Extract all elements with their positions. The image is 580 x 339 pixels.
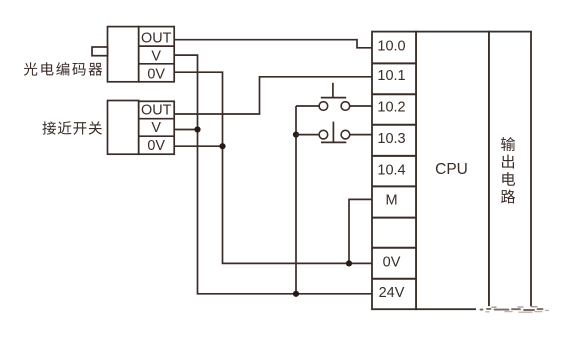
svg-text:M: M: [385, 193, 397, 209]
push button SB2 (NC) wire left: [296, 134, 319, 136]
wire encoder 0V to 0V rail: [174, 72, 372, 263]
wire switch OUT to input 10.1: [174, 77, 372, 114]
switch terminal OUT: [139, 103, 175, 119]
wire SB1 to input 10.2: [350, 105, 372, 107]
output circuit block: [489, 32, 531, 310]
svg-text:10.0: 10.0: [377, 38, 405, 54]
wire M terminal to 0V rail: [349, 199, 372, 263]
svg-text:0V: 0V: [147, 138, 165, 154]
CPU input terminal column: [372, 32, 416, 310]
svg-text:10.2: 10.2: [377, 100, 405, 116]
svg-text:10.4: 10.4: [377, 163, 405, 179]
encoder terminal OUT: [139, 30, 175, 46]
CPU terminal 10.2: [372, 100, 416, 125]
svg-text:CPU: CPU: [435, 161, 468, 178]
wire switch 0V to 0V rail: [174, 145, 222, 147]
push button SB2 (NC) actuator stem: [332, 122, 334, 143]
push button SB1 (NO) contacts: [319, 102, 350, 111]
proximity switch terminal block: [139, 101, 175, 154]
wire switch V to V rail: [174, 129, 197, 131]
CPU terminal 10.3: [372, 131, 416, 156]
switch terminal V: [139, 120, 175, 136]
CPU terminal 0V: [372, 254, 416, 278]
CPU terminal 10.1: [372, 68, 416, 94]
CPU terminal 24V: [379, 285, 405, 301]
svg-text:0V: 0V: [383, 254, 401, 270]
svg-text:24V: 24V: [379, 285, 405, 301]
proximity switch body: [108, 101, 139, 155]
push button SB2 (NC) actuator bar: [321, 141, 346, 143]
svg-text:0V: 0V: [147, 66, 165, 82]
svg-text:10.1: 10.1: [377, 68, 405, 84]
svg-text:10.3: 10.3: [377, 131, 405, 147]
photoelectric encoder body: [108, 27, 139, 82]
wire encoder V to 24V rail: [174, 55, 372, 294]
photoelectric encoder shaft tab: [92, 47, 108, 56]
CPU terminal 10.4: [372, 163, 416, 187]
junction M wire / 0V rail: [346, 260, 352, 266]
label 光电编码器 (photoelectric encoder): [24, 62, 102, 76]
encoder terminal block: [139, 27, 175, 82]
svg-text:V: V: [151, 120, 161, 136]
svg-text:OUT: OUT: [141, 30, 172, 46]
junction button drop / NC button: [293, 132, 299, 138]
push button SB1 (NO) wire left: [296, 105, 319, 107]
push button SB1 (NO) actuator bar: [321, 97, 346, 99]
junction switch V / V rail: [194, 126, 200, 132]
wire button supply drop from 24V rail: [295, 106, 297, 294]
svg-text:V: V: [151, 49, 161, 65]
CPU terminal 10.0: [372, 38, 416, 63]
watermark remnant over bottom border: [476, 306, 549, 312]
CPU terminal blank: [372, 247, 416, 249]
switch terminal 0V: [147, 138, 165, 154]
junction switch 0V / 0V rail: [219, 143, 225, 149]
push button SB2 (NC) contacts: [319, 130, 350, 139]
label 接近开关 (proximity switch): [42, 121, 102, 134]
encoder terminal V: [139, 49, 175, 65]
wire SB2 to input 10.3: [350, 134, 372, 136]
junction button drop / 24V rail: [293, 291, 299, 297]
CPU block: [416, 32, 489, 310]
encoder terminal 0V: [147, 66, 165, 82]
svg-text:OUT: OUT: [141, 103, 172, 119]
label 输出电路 (output circuit): [501, 137, 515, 203]
CPU terminal M: [372, 193, 416, 218]
wire encoder OUT to input 10.0: [174, 40, 372, 48]
push button SB1 (NO) actuator stem: [332, 83, 334, 98]
